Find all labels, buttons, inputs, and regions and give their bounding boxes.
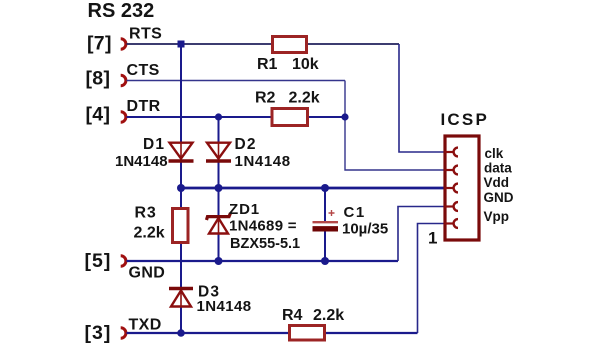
svg-text:Vpp: Vpp bbox=[484, 209, 510, 224]
svg-text:[7]: [7] bbox=[87, 33, 112, 55]
pin [7] bbox=[87, 33, 126, 55]
svg-text:2.2k: 2.2k bbox=[313, 307, 344, 324]
wire R4 right to corner bbox=[326, 332, 418, 334]
wire CTS down to R2 node bbox=[344, 81, 346, 118]
svg-text:R4: R4 bbox=[282, 307, 303, 324]
connector ICSP box bbox=[445, 136, 479, 240]
svg-text:1N4148: 1N4148 bbox=[235, 153, 291, 170]
wire TXD rail bbox=[127, 332, 289, 334]
polarity + mark bbox=[329, 210, 335, 216]
resistor R2 bbox=[272, 109, 308, 126]
pin Vpp bbox=[445, 219, 459, 228]
wire R2 right bbox=[309, 116, 345, 118]
svg-text:GND: GND bbox=[129, 265, 166, 282]
svg-text:ZD1: ZD1 bbox=[229, 201, 260, 218]
capacitor C1 bbox=[313, 222, 339, 229]
svg-text:1: 1 bbox=[428, 229, 437, 248]
svg-text:R3: R3 bbox=[135, 205, 157, 222]
svg-text:RS 232: RS 232 bbox=[88, 0, 155, 22]
wire RTS rail bbox=[127, 43, 272, 45]
wire Vdd rail bbox=[181, 187, 444, 190]
svg-text:C1: C1 bbox=[344, 204, 366, 221]
svg-text:[5]: [5] bbox=[85, 250, 112, 272]
pin [3] bbox=[85, 322, 126, 344]
svg-text:R1: R1 bbox=[257, 56, 278, 73]
resistor R3 bbox=[173, 209, 189, 243]
resistor R4 bbox=[290, 326, 325, 341]
pin clk bbox=[445, 148, 459, 157]
svg-text:1N4689 =: 1N4689 = bbox=[229, 218, 297, 235]
junction GND/ZD1 bbox=[215, 257, 223, 265]
wire D1 column bbox=[180, 44, 182, 188]
diode D1 bbox=[169, 143, 194, 161]
svg-text:2.2k: 2.2k bbox=[289, 90, 320, 107]
pin data bbox=[445, 166, 459, 175]
wire ZD1 leads bbox=[218, 188, 220, 261]
svg-text:[3]: [3] bbox=[85, 322, 112, 344]
svg-text:D2: D2 bbox=[235, 136, 257, 153]
pin Vdd bbox=[445, 184, 459, 193]
diode D2 bbox=[206, 143, 231, 161]
wire GND rail bbox=[127, 260, 399, 262]
resistor R1 bbox=[273, 37, 307, 53]
junction Vdd/D1/R3 bbox=[177, 184, 185, 192]
svg-text:10µ/35: 10µ/35 bbox=[342, 221, 388, 238]
pin [4] bbox=[86, 104, 126, 126]
svg-text:data: data bbox=[484, 161, 512, 176]
svg-text:RTS: RTS bbox=[129, 26, 162, 43]
wire CTS rail bbox=[127, 80, 346, 82]
junction RTS/D1 bbox=[178, 41, 185, 48]
svg-text:1N4148: 1N4148 bbox=[197, 298, 252, 315]
wire TXD up to Vpp bbox=[418, 224, 445, 334]
diode D3 bbox=[169, 289, 193, 307]
svg-text:1N4148: 1N4148 bbox=[115, 153, 168, 170]
wire node to data bbox=[345, 117, 444, 170]
junction GND/C1 bbox=[321, 257, 329, 265]
svg-text:Vdd: Vdd bbox=[484, 175, 510, 190]
junction Vdd/C1 bbox=[321, 184, 329, 192]
junction TXD/D3 bbox=[177, 329, 185, 337]
svg-text:BZX55-5.1: BZX55-5.1 bbox=[230, 236, 300, 252]
svg-text:10k: 10k bbox=[292, 56, 319, 73]
junction R2/CTS bbox=[341, 113, 348, 120]
wire RTS down to clk bbox=[399, 44, 444, 152]
svg-text:DTR: DTR bbox=[127, 98, 161, 115]
pin [5] bbox=[85, 250, 126, 272]
svg-text:GND: GND bbox=[484, 190, 514, 205]
svg-text:clk: clk bbox=[485, 146, 504, 161]
svg-text:2.2k: 2.2k bbox=[134, 225, 165, 242]
wire D3 column bbox=[180, 261, 182, 333]
wire GND up to ICSP bbox=[398, 207, 444, 262]
wire D2 column bbox=[218, 117, 220, 188]
svg-text:[4]: [4] bbox=[86, 104, 111, 126]
wire R1 to corner bbox=[308, 43, 399, 45]
svg-text:CTS: CTS bbox=[127, 62, 160, 79]
svg-text:TXD: TXD bbox=[129, 317, 162, 334]
svg-text:[8]: [8] bbox=[86, 68, 111, 90]
wire C1 leads bbox=[324, 188, 326, 261]
svg-text:ICSP: ICSP bbox=[441, 110, 489, 129]
junction Vdd/D2/ZD1 bbox=[215, 184, 223, 192]
svg-text:D1: D1 bbox=[143, 136, 165, 153]
pin [8] bbox=[86, 68, 126, 90]
svg-text:R2: R2 bbox=[255, 90, 276, 107]
junction DTR/D2 bbox=[215, 113, 222, 120]
zener diode ZD1 bbox=[207, 213, 231, 234]
wire R3 leads bbox=[180, 188, 182, 261]
wire DTR rail bbox=[127, 116, 271, 118]
pin GND bbox=[445, 202, 459, 211]
